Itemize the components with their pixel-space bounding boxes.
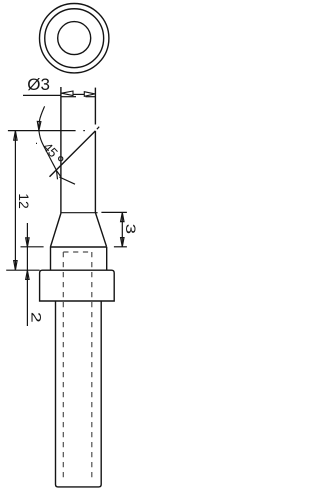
45-degree bevel edge [50, 131, 96, 177]
cone flare left edge [50, 213, 61, 247]
dimension 3 line [121, 212, 123, 246]
svg-text:2: 2 [29, 312, 45, 323]
dimension Ø3 left arrow (hollow) [62, 91, 74, 96]
dimension 12/2 bottom extension line [6, 269, 39, 271]
small dot left of 45 text [36, 142, 37, 144]
cone foot left side [50, 247, 52, 270]
shaft top edge left segment [61, 96, 76, 98]
bevel edge overshoot dot [97, 127, 99, 130]
tip left edge merged with extension tick [60, 87, 62, 213]
dimension 2 upper arrow (open) [26, 238, 29, 247]
cone flare right edge [95, 213, 106, 247]
dimension 3 top extension line [101, 211, 127, 213]
tip right edge lower segment [94, 131, 96, 213]
dimension 3 bottom extension line [114, 246, 127, 248]
top view outer circle [39, 4, 108, 73]
svg-text:12: 12 [16, 193, 32, 209]
degree symbol circle [59, 157, 63, 161]
hidden line right (dashed) [91, 252, 93, 482]
dimension Ø3 leader underline [23, 94, 61, 96]
body tube outline [56, 301, 102, 487]
extension line dot segment [83, 130, 85, 132]
tip right edge upper segment merged with tick [94, 88, 96, 125]
dimension Ø3 right arrow (hollow) [84, 92, 95, 97]
shoulder line at flare top [61, 212, 98, 214]
45-degree leader arrow tail [59, 177, 75, 184]
dimension 3 top arrow (open) [121, 213, 124, 222]
dimension 3 bottom arrow (open) [121, 238, 124, 247]
top view middle circle [45, 9, 104, 68]
cone foot right side [106, 247, 108, 270]
45-degree leader spline upper part [39, 106, 45, 130]
hidden line left (dashed) [62, 252, 64, 482]
45-degree leader spline lower part [39, 131, 57, 171]
45-degree spline lower arrow (open) [57, 171, 61, 180]
dimension Ø3 dim line middle segment [73, 93, 84, 95]
dimension 12 top extension line [8, 130, 76, 132]
top view inner circle [58, 22, 91, 55]
dimension 2 lower arrow (open) [26, 271, 29, 280]
collar rectangle [40, 270, 115, 301]
cone foot top edge [50, 246, 106, 248]
dimension 12 line [14, 131, 16, 271]
hidden hole top edge (dashed) [63, 251, 92, 253]
svg-text:3: 3 [123, 224, 139, 235]
45-degree spline upper arrow (open) [37, 121, 41, 130]
svg-text:Ø3: Ø3 [27, 75, 50, 94]
shaft top edge right segment [86, 96, 96, 98]
dimension 12 bottom arrow (open) [14, 261, 17, 270]
dimension 12 top arrow (open) [14, 131, 17, 140]
dimension 2 top extension line [21, 246, 44, 248]
dimension 2 line [26, 223, 28, 326]
